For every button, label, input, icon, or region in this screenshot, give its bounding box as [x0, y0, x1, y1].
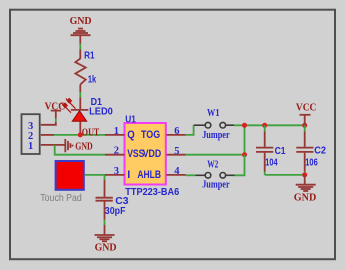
svg-text:OUT: OUT — [82, 128, 100, 139]
svg-text:VCC: VCC — [296, 103, 317, 114]
wire pin6 to W1 — [186, 125, 194, 135]
pin C1 bottom (green) — [264, 172, 266, 175]
capacitor C1 — [256, 132, 273, 172]
wire pin5 to junction — [186, 154, 245, 156]
svg-text:30pF: 30pF — [105, 206, 126, 217]
svg-text:2: 2 — [114, 146, 119, 157]
pin C3 (green) — [104, 220, 106, 225]
svg-text:W2: W2 — [207, 159, 218, 170]
svg-text:3: 3 — [114, 166, 119, 177]
power symbol GND top — [71, 29, 91, 44]
wire pin4 to W2 — [186, 174, 196, 176]
svg-text:VDD: VDD — [143, 148, 162, 160]
LED arrow 2 — [61, 103, 71, 113]
pin C1 top (green) — [264, 125, 266, 131]
junction VCC right — [302, 123, 307, 128]
pin 3 — [28, 121, 57, 132]
svg-text:C1: C1 — [275, 146, 286, 157]
wire top rail — [245, 124, 305, 126]
wire pin1 to VSS row — [55, 145, 105, 155]
svg-text:1: 1 — [28, 141, 33, 152]
wire touch pad to I row — [85, 174, 105, 176]
wire VCC stem (green) — [55, 118, 57, 122]
junction W1 rail — [242, 123, 247, 128]
wire node to C3 — [104, 175, 106, 180]
svg-text:GND: GND — [95, 243, 117, 254]
svg-text:R1: R1 — [84, 51, 95, 62]
wire W1 to rail — [234, 124, 245, 126]
svg-text:U1: U1 — [125, 115, 136, 126]
jumper W2 — [195, 173, 234, 179]
power symbol VCC left — [51, 111, 61, 126]
pin 2 — [28, 131, 54, 142]
svg-text:C2: C2 — [314, 146, 326, 157]
svg-text:106: 106 — [305, 158, 318, 169]
svg-text:Jumper: Jumper — [202, 130, 230, 141]
svg-text:Q: Q — [127, 129, 135, 141]
svg-text:VCC: VCC — [45, 102, 66, 113]
diode D1 LED — [71, 98, 89, 134]
capacitor C3 — [96, 180, 113, 234]
U1 pin 3 I — [105, 166, 130, 181]
power symbol VCC right — [300, 115, 311, 126]
U1 pin 2 VSS — [105, 146, 144, 160]
pin C2 top (green) — [304, 125, 306, 131]
touch pad — [56, 161, 84, 190]
svg-text:5: 5 — [174, 146, 179, 157]
svg-text:W1: W1 — [207, 108, 220, 119]
connector P1 — [22, 114, 40, 154]
junction GND right — [302, 172, 307, 177]
LED arrow 1 — [66, 99, 76, 109]
junction VDD row — [242, 152, 247, 157]
wire junction to W2 — [234, 155, 245, 176]
U1 pin 5 VDD — [143, 146, 186, 160]
junction OUT — [78, 132, 83, 137]
junction C1 top — [262, 123, 267, 128]
svg-text:TTP223-BA6: TTP223-BA6 — [125, 187, 179, 198]
power symbol GND right — [296, 175, 316, 191]
wire OUT node to U1 pin1 — [80, 134, 105, 136]
U1 pin 1 Q — [105, 126, 135, 141]
wire pin2 to OUT node — [54, 134, 80, 136]
capacitor C2 — [296, 132, 313, 172]
svg-text:AHLB: AHLB — [137, 169, 161, 181]
pin 1 — [28, 141, 65, 152]
svg-text:GND: GND — [294, 192, 317, 203]
power symbol GND (pin1, rotated right) — [65, 139, 72, 152]
pin C2 bottom (green) — [304, 172, 306, 175]
svg-text:4: 4 — [174, 166, 180, 177]
svg-text:I: I — [127, 169, 130, 181]
wire bottom rail — [265, 174, 305, 176]
svg-text:GND: GND — [70, 16, 92, 27]
wire junction column — [244, 125, 246, 155]
power symbol GND bottom — [95, 235, 115, 241]
svg-text:Touch Pad: Touch Pad — [40, 193, 82, 204]
svg-text:1: 1 — [114, 126, 119, 137]
svg-text:LED0: LED0 — [89, 106, 113, 117]
svg-text:1k: 1k — [88, 74, 97, 85]
jumper W1 — [194, 122, 235, 128]
IC U1 TTP223 — [125, 123, 166, 185]
svg-text:GND: GND — [75, 142, 93, 153]
svg-text:6: 6 — [174, 126, 179, 137]
U1 pin 4 AHLB — [137, 166, 185, 181]
resistor R1 — [75, 50, 85, 93]
svg-text:104: 104 — [265, 158, 278, 169]
svg-text:TOG: TOG — [141, 129, 160, 141]
svg-text:Jumper: Jumper — [202, 180, 230, 191]
pin R1-1 (green) — [79, 44, 81, 50]
U1 pin 6 TOG — [141, 126, 186, 141]
pin R1-2 (green) — [79, 92, 81, 98]
